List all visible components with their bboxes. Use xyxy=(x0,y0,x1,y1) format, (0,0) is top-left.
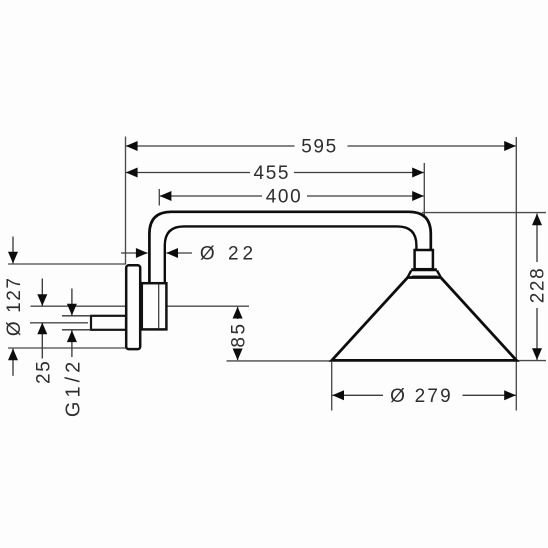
dimension 595 xyxy=(126,137,516,158)
svg-text:G1/2: G1/2 xyxy=(63,358,85,417)
dimension 228 xyxy=(528,214,548,360)
extension line wall face x=125.5 xyxy=(125,137,127,265)
shower arm inner contour xyxy=(165,226,417,284)
dimension Ø127 xyxy=(4,237,25,376)
shower arm outer contour xyxy=(149,212,430,284)
dimension G1/2 xyxy=(63,289,85,418)
extension line Ø279 left x=331.7 xyxy=(331,362,333,411)
extension line cone bottom right xyxy=(517,360,547,362)
svg-text:228: 228 xyxy=(528,267,548,304)
extension line plate top xyxy=(8,263,126,265)
dimension 400 xyxy=(160,187,424,208)
collar left slant xyxy=(408,271,412,278)
dimension Ø22 xyxy=(121,243,257,264)
connector nut xyxy=(415,250,433,269)
svg-text:Ø 279: Ø 279 xyxy=(390,386,453,407)
dimension 455 xyxy=(126,163,424,184)
nut bottom flange xyxy=(411,268,437,271)
extension line arm top y=212.5 xyxy=(422,212,546,214)
stub centerline xyxy=(30,322,88,324)
extension line plate center left xyxy=(31,305,126,307)
svg-text:85: 85 xyxy=(229,321,250,347)
svg-text:455: 455 xyxy=(254,163,291,184)
G1/2 stub xyxy=(91,316,126,330)
dimension 25 xyxy=(33,279,54,384)
svg-text:Ø 127: Ø 127 xyxy=(4,276,25,336)
collar inner thin line xyxy=(412,275,438,277)
wall plate xyxy=(126,265,140,349)
extension line cone right x=516.3 xyxy=(515,137,517,411)
svg-text:595: 595 xyxy=(301,137,338,158)
escutcheon xyxy=(142,283,167,329)
extension line cone bottom left xyxy=(227,360,333,362)
extension line head center x=424.3 xyxy=(423,163,425,217)
dimension 85 xyxy=(229,307,250,360)
svg-text:25: 25 xyxy=(33,360,54,384)
svg-text:Ø 22: Ø 22 xyxy=(200,243,257,264)
dimension Ø279 xyxy=(332,386,516,407)
escutcheon inner line xyxy=(158,285,160,329)
extension line arm start x=159.3 xyxy=(158,189,160,206)
extension line plate bottom xyxy=(8,347,126,349)
stub bottom edge extension xyxy=(62,329,91,331)
extension line plate center right xyxy=(168,305,250,307)
shower head cone xyxy=(332,278,517,361)
collar right slant xyxy=(437,271,441,278)
svg-text:400: 400 xyxy=(266,187,303,208)
stub top edge extension xyxy=(62,315,91,317)
